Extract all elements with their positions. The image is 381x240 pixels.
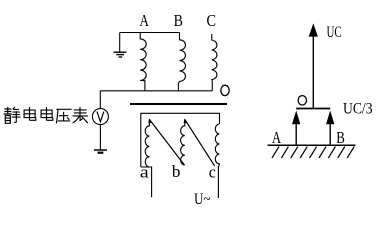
winding B primary	[178, 33, 185, 91]
phasor arrow UB (right UC/3)	[329, 124, 331, 145]
svg-text:C: C	[206, 11, 216, 30]
voltmeter V (electrostatic)	[92, 109, 108, 125]
node O label	[221, 85, 229, 95]
svg-text:A: A	[139, 11, 149, 30]
svg-text:B: B	[174, 11, 183, 30]
phasor O label	[298, 96, 306, 105]
wire V meter drop	[99, 91, 101, 109]
wire V meter to ground	[99, 125, 101, 150]
winding C primary	[212, 34, 217, 91]
svg-text:b: b	[172, 162, 181, 181]
phasor bar at O	[296, 108, 330, 110]
phasor arrow UA (left UC/3)	[295, 124, 297, 145]
core separator line	[130, 103, 227, 105]
ground (below voltmeter)	[94, 149, 107, 151]
电	[41, 108, 53, 121]
svg-text:A: A	[272, 128, 282, 147]
表	[73, 108, 88, 123]
wire ground stub	[119, 33, 121, 52]
wire secondary frame (left vertical, top, right vertical)	[141, 113, 220, 167]
svg-text:UC: UC	[327, 24, 342, 41]
winding b secondary	[181, 119, 185, 165]
svg-text:c: c	[209, 163, 216, 182]
wire top bus A-B	[120, 32, 180, 34]
phasor arrow UC	[312, 36, 314, 109]
静	[4, 107, 20, 123]
arrow winding b to a	[149, 119, 184, 164]
phasor ground hatching	[272, 147, 354, 158]
winding a secondary	[145, 119, 151, 167]
winding A primary	[140, 33, 146, 91]
wire bottom bus to O	[100, 90, 212, 92]
svg-text:UC/3: UC/3	[343, 101, 373, 118]
label 静电电压表 (electrostatic voltmeter)	[4, 107, 88, 123]
svg-text:B: B	[336, 128, 345, 147]
phasor ground line	[268, 144, 356, 146]
svg-text:U~: U~	[194, 191, 211, 208]
ground (top-left)	[114, 52, 127, 57]
svg-text:a: a	[140, 163, 150, 182]
电	[24, 108, 36, 121]
压	[56, 109, 71, 123]
wire terminal a corner	[141, 167, 152, 197]
winding c secondary	[215, 124, 219, 198]
arrow winding c to b	[185, 119, 215, 165]
